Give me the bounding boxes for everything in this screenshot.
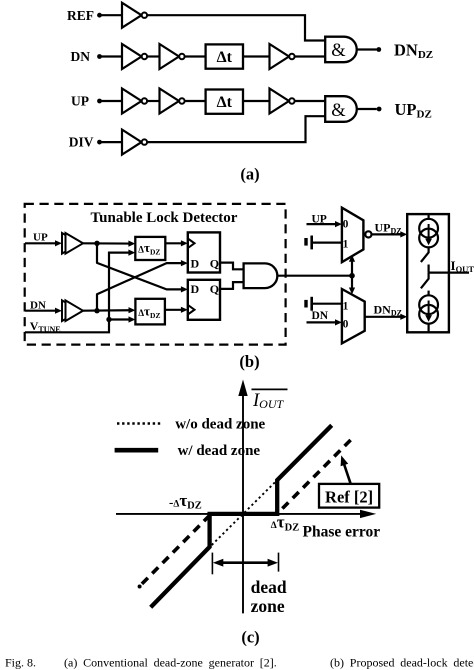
- legend solid line: [115, 448, 159, 453]
- svg-text:0: 0: [343, 319, 349, 331]
- node UP buffer output: [94, 241, 99, 246]
- tie-high symbol upper mux: [306, 236, 342, 250]
- tick dead zone left: [211, 553, 213, 575]
- wire select to upper mux: [349, 255, 355, 276]
- wire UP to mux 0: [307, 221, 342, 227]
- svg-text:Δt: Δt: [217, 49, 233, 66]
- svg-text:DNDZ: DNDZ: [374, 303, 402, 318]
- label plus delta tau dz: [271, 513, 299, 534]
- axis Y: [238, 380, 247, 614]
- wire DN node to upper DFF D input: [97, 260, 188, 311]
- tie-high symbol lower mux: [306, 297, 342, 311]
- flip-flop lower U4: [188, 280, 220, 320]
- label minus delta tau dz: [169, 491, 202, 512]
- caption figure 8: [5, 656, 474, 670]
- tick dead zone right: [278, 553, 280, 572]
- svg-text:Q: Q: [210, 256, 219, 270]
- dashed box tunable lock detector: [25, 204, 286, 345]
- svg-text:dead: dead: [251, 577, 287, 597]
- wire DIV inverter to AND2 bottom input: [147, 116, 325, 142]
- curve dashed Ref2 right branch: [277, 440, 351, 514]
- svg-text:0: 0: [343, 219, 349, 231]
- curve dotted w/o dead zone: [205, 475, 283, 552]
- wire DN delay to inverter 3: [243, 55, 270, 57]
- wire lock signal to mux select: [277, 275, 352, 277]
- node DN buffer output: [94, 308, 99, 313]
- node VTUNE branch: [106, 317, 111, 322]
- wire DN to inverter 1: [100, 55, 123, 57]
- Ref2 callout box: [319, 484, 379, 508]
- label DNdz: [394, 40, 433, 61]
- svg-text:Ref [2]: Ref [2]: [325, 487, 373, 506]
- delay block upper (delta tau DZ): [135, 237, 165, 260]
- svg-text:D: D: [191, 282, 200, 296]
- svg-text:DIV: DIV: [69, 135, 94, 150]
- wire DN to mux 0: [307, 319, 342, 325]
- arrow dead zone span: [213, 559, 278, 567]
- wire AND1 output: [357, 48, 377, 50]
- wire UPdz to charge pump: [372, 231, 408, 237]
- node UPdz output: [377, 107, 382, 112]
- label dead zone: [251, 577, 287, 616]
- svg-text:zone: zone: [251, 596, 285, 616]
- label UPdz (b): [375, 220, 402, 235]
- current source lower: [419, 295, 438, 323]
- label (c): [241, 627, 259, 646]
- svg-text:UP: UP: [33, 231, 48, 243]
- svg-text:DN: DN: [71, 49, 91, 64]
- wire UP inv1 to inv2: [147, 100, 159, 102]
- label (a): [240, 164, 259, 183]
- label DN: [71, 49, 91, 64]
- label Iout with overline: [252, 389, 288, 411]
- axis X: [116, 510, 376, 518]
- charge pump box: [407, 214, 449, 332]
- label UPdz: [395, 100, 432, 121]
- node UP input: [97, 99, 102, 104]
- current source upper: [419, 219, 438, 248]
- svg-text:&: &: [331, 41, 346, 61]
- curve solid w/ dead zone: [151, 425, 332, 607]
- label UP mux: [312, 213, 327, 225]
- wire Iout: [429, 272, 469, 274]
- svg-text:(a): (a): [240, 164, 259, 183]
- inverter DN 1: [122, 44, 147, 69]
- bubble upper mux output: [365, 231, 371, 237]
- switch lower: [421, 273, 429, 296]
- wire select to lower mux: [349, 276, 355, 295]
- label UP (b): [33, 231, 48, 243]
- wire REF to inverter: [100, 14, 123, 16]
- arrow Ref2 to dashed curve: [341, 455, 351, 484]
- wire REF inverter to AND1 top input: [147, 15, 325, 40]
- inverter DN 3: [270, 44, 295, 69]
- svg-text:D: D: [191, 256, 200, 270]
- wire UP input: [25, 240, 62, 246]
- wire upper delay to upper DFF clock: [165, 240, 188, 246]
- wire AND2 output: [357, 108, 377, 110]
- wire lower delay to lower DFF clock: [165, 307, 188, 313]
- wire lower Q to AND: [220, 282, 244, 289]
- svg-text:VTUNE: VTUNE: [30, 319, 61, 334]
- wire UP inv2 to delay: [185, 100, 206, 102]
- svg-text:w/ dead zone: w/ dead zone: [178, 443, 261, 459]
- label DN mux: [312, 310, 329, 322]
- wire DNdz to charge pump: [365, 314, 408, 320]
- wire UP inv3 to AND2 top input: [295, 100, 326, 102]
- label DNdz (b): [374, 303, 402, 318]
- svg-text:(b): (b): [239, 352, 259, 371]
- wire UP delay to inverter 3: [243, 100, 270, 102]
- wire DN inv3 to AND1 bottom input: [295, 55, 326, 57]
- inverter UP 3: [270, 89, 295, 114]
- svg-text:DNDZ: DNDZ: [394, 40, 433, 61]
- wire DN inv2 to delay: [185, 55, 206, 57]
- switch upper: [421, 247, 429, 272]
- svg-text:IOUT: IOUT: [451, 258, 474, 274]
- svg-text:(c): (c): [241, 627, 259, 646]
- label DIV: [69, 135, 94, 150]
- wire DN input: [25, 308, 62, 314]
- legend label w/ dead zone: [178, 443, 261, 459]
- inverter UP 2: [160, 89, 185, 114]
- inverter DIV: [122, 130, 147, 155]
- node DN input: [97, 54, 102, 59]
- label VTUNE: [30, 319, 61, 334]
- AND gate 2: [325, 96, 357, 122]
- svg-text:Phase error: Phase error: [303, 523, 381, 540]
- inverter REF: [122, 3, 147, 28]
- node DNdz output: [376, 47, 381, 52]
- curve dashed Ref2 left branch: [138, 514, 211, 588]
- wire VTUNE riser: [25, 250, 135, 333]
- label UP: [71, 94, 89, 109]
- wire UP to inverter 1: [100, 100, 123, 102]
- svg-text:IOUT: IOUT: [252, 391, 285, 411]
- svg-text:UPDZ: UPDZ: [375, 220, 402, 235]
- wire cp top stub: [428, 214, 430, 220]
- wire DN inv1 to inv2: [147, 55, 159, 57]
- buffer DN U2: [62, 300, 83, 321]
- svg-text:w/o dead zone: w/o dead zone: [175, 417, 265, 433]
- wire DIV to inverter: [100, 141, 123, 143]
- svg-text:UP: UP: [71, 94, 89, 109]
- node select junction: [349, 273, 355, 279]
- legend label w/o dead zone: [175, 417, 265, 433]
- inverter UP 1: [122, 89, 147, 114]
- svg-text:Fig. 8.(a) Conventional dead-z: Fig. 8.(a) Conventional dead-zone genera…: [5, 656, 474, 670]
- label DN (b): [30, 299, 46, 311]
- node DIV input: [97, 140, 102, 145]
- mux upper: [342, 208, 364, 262]
- svg-text:1: 1: [343, 239, 349, 251]
- mux lower: [342, 289, 365, 343]
- label (b): [239, 352, 259, 371]
- legend dotted line: [117, 422, 161, 424]
- buffer UP U1: [62, 233, 83, 254]
- wire cp bottom stub: [428, 324, 430, 333]
- inverter DN 2: [160, 44, 185, 69]
- label Phase error: [303, 523, 381, 540]
- svg-text:&: &: [331, 101, 346, 121]
- wire UP buffer to delay box: [83, 241, 135, 247]
- wire UP node to lower DFF D input: [97, 243, 188, 292]
- svg-text:Q: Q: [210, 282, 219, 296]
- svg-text:Δt: Δt: [217, 94, 233, 111]
- delay block lower (delta tau DZ): [135, 299, 165, 325]
- AND gate lock detector: [244, 263, 278, 288]
- AND gate 1: [325, 37, 357, 63]
- wire DN buffer to delay box: [83, 307, 135, 313]
- svg-text:DN: DN: [312, 310, 329, 322]
- label Tunable Lock Detector: [91, 210, 238, 226]
- delay block UP (delta t): [206, 90, 243, 114]
- label Iout: [451, 258, 474, 274]
- delay block DN (delta t): [206, 44, 243, 68]
- wire VTUNE branch to lower delay box: [109, 316, 135, 322]
- svg-text:-ΔτDZ: -ΔτDZ: [169, 491, 202, 512]
- svg-text:UPDZ: UPDZ: [395, 100, 432, 121]
- wire upper Q to AND: [220, 263, 244, 270]
- svg-text:1: 1: [343, 301, 349, 313]
- flip-flop upper U3: [188, 232, 220, 272]
- label REF: [67, 8, 94, 23]
- node REF input: [97, 13, 102, 18]
- svg-text:REF: REF: [67, 8, 94, 23]
- svg-text:Tunable Lock Detector: Tunable Lock Detector: [91, 210, 238, 226]
